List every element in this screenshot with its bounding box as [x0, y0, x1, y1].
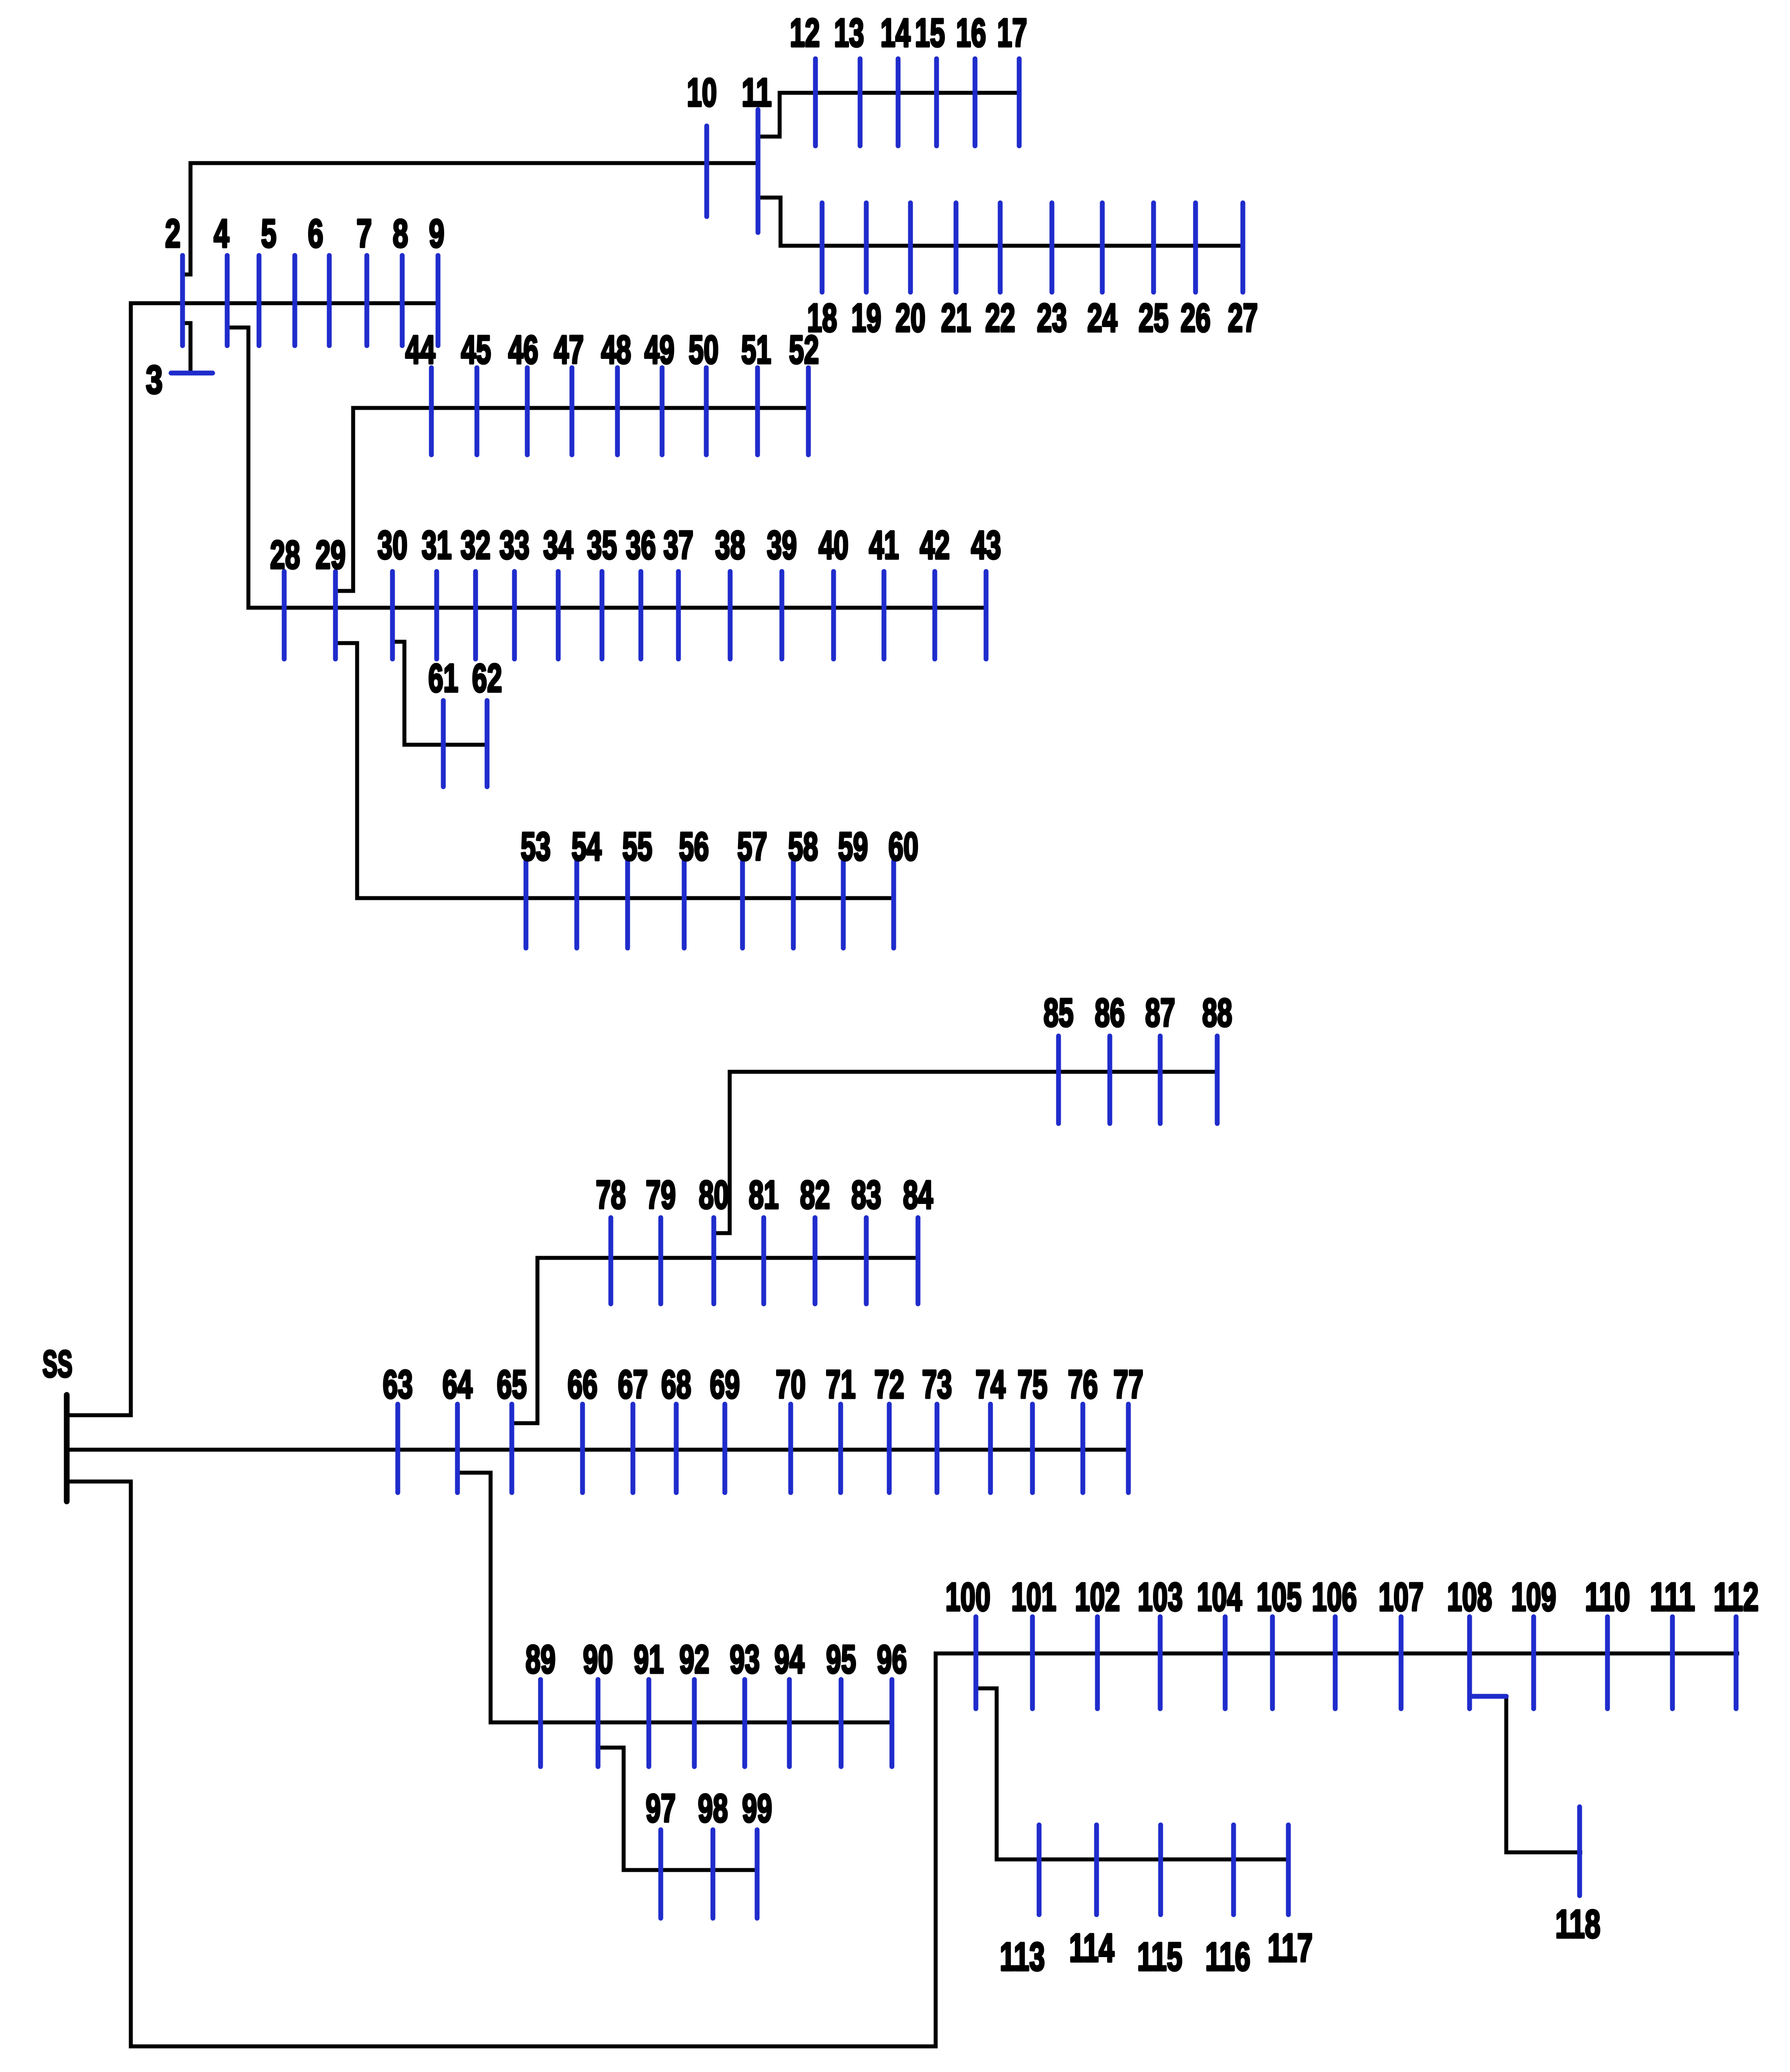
- wire bus 11 upper tap + feeder to buses 12-17: [758, 93, 1019, 137]
- bus 107: [1379, 1575, 1424, 1709]
- svg-text:71: 71: [826, 1363, 856, 1407]
- wire bus 108 drop + stub to bus 118: [1506, 1696, 1582, 1852]
- bus 110: [1585, 1575, 1630, 1709]
- bus 97: [646, 1786, 676, 1918]
- svg-text:42: 42: [920, 523, 950, 568]
- svg-text:93: 93: [730, 1638, 760, 1682]
- bus 33: [499, 523, 529, 659]
- svg-text:92: 92: [679, 1638, 709, 1682]
- bus 104: [1197, 1575, 1242, 1709]
- wire bus 29 riser + feeder to buses 44-52: [335, 408, 808, 591]
- svg-text:113: 113: [1000, 1935, 1045, 1979]
- bus 12: [790, 11, 820, 146]
- bus 91: [634, 1638, 664, 1767]
- svg-text:15: 15: [915, 11, 945, 55]
- bus 9: [402, 212, 445, 346]
- svg-text:22: 22: [985, 296, 1015, 340]
- svg-text:70: 70: [776, 1363, 806, 1407]
- svg-text:102: 102: [1075, 1575, 1120, 1619]
- svg-text:44: 44: [405, 328, 435, 372]
- svg-text:34: 34: [543, 523, 573, 568]
- svg-text:38: 38: [715, 523, 745, 568]
- wire bus 4 drop + feeder to buses 28-43: [227, 328, 987, 608]
- bus 109: [1511, 1575, 1556, 1709]
- svg-text:114: 114: [1069, 1926, 1114, 1970]
- svg-text:85: 85: [1044, 991, 1074, 1035]
- svg-text:115: 115: [1137, 1935, 1182, 1979]
- svg-text:97: 97: [646, 1786, 676, 1831]
- bus 114: [1069, 1825, 1114, 1970]
- svg-text:101: 101: [1011, 1575, 1056, 1619]
- bus 73: [922, 1363, 952, 1493]
- svg-text:94: 94: [774, 1638, 804, 1682]
- svg-text:58: 58: [788, 825, 818, 869]
- bus 56: [679, 825, 709, 948]
- wire SS lower branch + bottom run + right riser + feeder to buses 100-112: [69, 1482, 1739, 2046]
- svg-text:12: 12: [790, 11, 820, 55]
- bus 5: [259, 212, 277, 346]
- bus 38: [715, 523, 745, 659]
- bus 50: [689, 328, 719, 455]
- bus 3: [146, 358, 213, 402]
- bus 94: [774, 1638, 804, 1767]
- bus 80: [699, 1173, 729, 1304]
- bus 18: [807, 203, 837, 340]
- bus 19: [851, 203, 881, 340]
- svg-text:76: 76: [1068, 1363, 1098, 1407]
- bus 85: [1044, 991, 1074, 1124]
- svg-text:24: 24: [1087, 296, 1117, 340]
- svg-text:61: 61: [428, 656, 458, 701]
- svg-text:110: 110: [1585, 1575, 1630, 1619]
- bus 34: [543, 523, 573, 659]
- bus 86: [1095, 991, 1125, 1124]
- bus 78: [596, 1173, 626, 1304]
- svg-text:96: 96: [877, 1638, 907, 1682]
- bus 29: [316, 533, 346, 659]
- svg-text:74: 74: [975, 1363, 1005, 1407]
- svg-text:13: 13: [834, 11, 864, 55]
- svg-text:37: 37: [663, 523, 693, 568]
- svg-text:69: 69: [710, 1363, 740, 1407]
- svg-text:25: 25: [1139, 296, 1169, 340]
- bus 37: [663, 523, 693, 659]
- bus 11: [742, 71, 772, 232]
- svg-text:9: 9: [429, 212, 445, 256]
- wire bus 30 drop + feeder to buses 61-62: [392, 642, 487, 745]
- svg-text:111: 111: [1650, 1575, 1695, 1619]
- svg-text:91: 91: [634, 1638, 664, 1682]
- svg-text:62: 62: [472, 656, 502, 701]
- bus 66: [567, 1363, 598, 1493]
- svg-text:5: 5: [261, 212, 277, 256]
- svg-text:68: 68: [661, 1363, 691, 1407]
- svg-text:43: 43: [971, 523, 1001, 568]
- bus 22: [985, 203, 1015, 340]
- bus 79: [646, 1173, 676, 1304]
- svg-text:50: 50: [689, 328, 719, 372]
- svg-text:SS: SS: [42, 1343, 72, 1385]
- bus 39: [767, 523, 797, 659]
- svg-text:7: 7: [357, 212, 372, 256]
- bus 58: [788, 825, 818, 948]
- bus 68: [661, 1363, 691, 1493]
- svg-text:36: 36: [626, 523, 656, 568]
- bus 71: [826, 1363, 856, 1493]
- bus 103: [1138, 1575, 1183, 1709]
- svg-text:54: 54: [571, 825, 602, 869]
- svg-text:67: 67: [618, 1363, 648, 1407]
- bus 83: [851, 1173, 881, 1304]
- bus 113: [1000, 1825, 1045, 1979]
- svg-text:104: 104: [1197, 1575, 1242, 1619]
- bus 44: [405, 328, 435, 455]
- bus 89: [526, 1638, 556, 1767]
- svg-text:90: 90: [583, 1638, 613, 1682]
- svg-text:48: 48: [601, 328, 631, 372]
- svg-text:106: 106: [1312, 1575, 1357, 1619]
- svg-text:56: 56: [679, 825, 709, 869]
- svg-text:47: 47: [554, 328, 584, 372]
- bus 57: [737, 825, 767, 948]
- wire bus 64 drop + feeder to buses 89-96: [457, 1473, 892, 1722]
- svg-text:3: 3: [146, 358, 163, 402]
- svg-text:23: 23: [1037, 296, 1067, 340]
- bus 106: [1312, 1575, 1357, 1709]
- bus 99: [742, 1786, 772, 1918]
- svg-text:57: 57: [737, 825, 767, 869]
- svg-text:33: 33: [499, 523, 529, 568]
- svg-text:112: 112: [1714, 1575, 1759, 1619]
- svg-text:87: 87: [1145, 991, 1175, 1035]
- bus 41: [869, 523, 899, 659]
- wire bus 100 drop + feeder to buses 113-117: [976, 1688, 1288, 1859]
- bus 30: [377, 523, 408, 659]
- bus 108: [1447, 1575, 1492, 1709]
- svg-text:49: 49: [644, 328, 674, 372]
- bus 23: [1037, 203, 1067, 340]
- svg-text:4: 4: [214, 212, 229, 256]
- svg-text:46: 46: [508, 328, 538, 372]
- wire bus 80 riser + feeder to buses 85-88: [714, 1072, 1217, 1233]
- svg-text:17: 17: [997, 11, 1027, 55]
- bus 84: [903, 1173, 933, 1304]
- svg-text:116: 116: [1205, 1935, 1250, 1979]
- bus 93: [730, 1638, 760, 1767]
- svg-text:51: 51: [741, 328, 771, 372]
- bus 64: [442, 1363, 472, 1493]
- bus 21: [941, 203, 971, 340]
- svg-text:79: 79: [646, 1173, 676, 1217]
- svg-text:21: 21: [941, 296, 971, 340]
- bus 69: [710, 1363, 740, 1493]
- svg-text:59: 59: [838, 825, 868, 869]
- svg-text:108: 108: [1447, 1575, 1492, 1619]
- bus 10: [687, 71, 717, 217]
- svg-text:99: 99: [742, 1786, 772, 1831]
- wire bus 2 riser to top feeder and feeder to buses 10-11: [183, 163, 758, 274]
- bus 75: [1017, 1363, 1047, 1493]
- bus 88: [1202, 991, 1232, 1124]
- bus 74: [975, 1363, 1005, 1493]
- svg-text:64: 64: [442, 1363, 472, 1407]
- bus 15: [915, 11, 945, 146]
- wire SS main feeder to buses 63-77: [69, 1448, 1128, 1452]
- bus 13: [834, 11, 864, 146]
- bus 43: [971, 523, 1001, 659]
- svg-text:72: 72: [874, 1363, 904, 1407]
- svg-text:26: 26: [1181, 296, 1211, 340]
- svg-text:82: 82: [800, 1173, 830, 1217]
- svg-text:14: 14: [880, 11, 910, 55]
- svg-text:2: 2: [165, 212, 181, 256]
- svg-text:52: 52: [789, 328, 819, 372]
- svg-text:95: 95: [826, 1638, 856, 1682]
- bus 61: [428, 656, 458, 787]
- bus 55: [622, 825, 652, 948]
- bus 72: [874, 1363, 904, 1493]
- svg-text:118: 118: [1555, 1902, 1600, 1946]
- bus 63: [383, 1363, 413, 1493]
- bus 32: [461, 523, 491, 659]
- bus 77: [1113, 1363, 1143, 1493]
- bus 116: [1205, 1825, 1250, 1979]
- bus 117: [1268, 1825, 1313, 1970]
- bus 27: [1228, 203, 1258, 340]
- bus 20: [895, 203, 925, 340]
- bus 115: [1137, 1825, 1182, 1979]
- svg-text:81: 81: [749, 1173, 779, 1217]
- svg-text:45: 45: [461, 328, 491, 372]
- bus 96: [877, 1638, 907, 1767]
- svg-text:40: 40: [819, 523, 849, 568]
- bus 6: [295, 212, 324, 346]
- svg-text:30: 30: [377, 523, 408, 568]
- bus 14: [880, 11, 910, 146]
- svg-text:88: 88: [1202, 991, 1232, 1035]
- bus 16: [956, 11, 986, 146]
- svg-text:53: 53: [521, 825, 551, 869]
- bus 87: [1145, 991, 1175, 1124]
- svg-text:55: 55: [622, 825, 652, 869]
- bus 111: [1650, 1575, 1695, 1709]
- wire SS upper branch + left riser + feeder to buses 2-9: [69, 303, 438, 1415]
- svg-text:31: 31: [422, 523, 452, 568]
- bus 36: [626, 523, 656, 659]
- svg-text:27: 27: [1228, 296, 1258, 340]
- bus 76: [1068, 1363, 1098, 1493]
- bus 42: [920, 523, 950, 659]
- svg-text:105: 105: [1257, 1575, 1302, 1619]
- bus 67: [618, 1363, 648, 1493]
- bus 92: [679, 1638, 709, 1767]
- bus 90: [583, 1638, 613, 1767]
- bus 4: [214, 212, 229, 346]
- svg-text:75: 75: [1017, 1363, 1047, 1407]
- bus 46: [508, 328, 538, 455]
- bus 95: [826, 1638, 856, 1767]
- bus 102: [1075, 1575, 1120, 1709]
- svg-text:109: 109: [1511, 1575, 1556, 1619]
- bus 49: [644, 328, 674, 455]
- svg-text:35: 35: [587, 523, 617, 568]
- bus 53: [521, 825, 551, 948]
- svg-text:29: 29: [316, 533, 346, 577]
- svg-text:80: 80: [699, 1173, 729, 1217]
- svg-text:20: 20: [895, 296, 925, 340]
- bus 59: [838, 825, 868, 948]
- bus 112: [1714, 1575, 1759, 1709]
- svg-text:8: 8: [393, 212, 408, 256]
- bus 100: [945, 1575, 990, 1709]
- svg-text:6: 6: [308, 212, 324, 256]
- svg-text:78: 78: [596, 1173, 626, 1217]
- svg-text:41: 41: [869, 523, 899, 568]
- wire bus 11 lower tap + feeder to buses 18-27: [758, 198, 1243, 246]
- bus 47: [554, 328, 584, 455]
- wire bus 29 drop + feeder to buses 53-60: [335, 643, 894, 898]
- svg-text:65: 65: [497, 1363, 527, 1407]
- bus 25: [1139, 203, 1169, 340]
- bus 62: [472, 656, 502, 787]
- bus 118: [1555, 1807, 1600, 1946]
- svg-text:83: 83: [851, 1173, 881, 1217]
- svg-text:77: 77: [1113, 1363, 1143, 1407]
- bus 17: [997, 11, 1027, 146]
- svg-text:98: 98: [698, 1786, 728, 1831]
- bus 101: [1011, 1575, 1056, 1709]
- bus 7: [329, 212, 372, 346]
- svg-text:10: 10: [687, 71, 717, 115]
- svg-text:73: 73: [922, 1363, 952, 1407]
- wire bus 2 drop to bus 3: [181, 323, 190, 373]
- bus 28: [270, 533, 300, 659]
- bus 24: [1087, 203, 1117, 340]
- svg-text:86: 86: [1095, 991, 1125, 1035]
- bus 51: [741, 328, 771, 455]
- bus 82: [800, 1173, 830, 1304]
- bus 48: [601, 328, 631, 455]
- bus 26: [1181, 203, 1211, 340]
- svg-text:16: 16: [956, 11, 986, 55]
- svg-text:89: 89: [526, 1638, 556, 1682]
- bus 45: [461, 328, 491, 455]
- svg-text:107: 107: [1379, 1575, 1424, 1619]
- wire bus 108 blue jog: [1470, 1694, 1506, 1699]
- wire bus 65 riser + feeder to buses 78-84: [512, 1258, 918, 1423]
- svg-text:63: 63: [383, 1363, 413, 1407]
- svg-text:11: 11: [742, 71, 772, 115]
- svg-text:66: 66: [567, 1363, 598, 1407]
- bus 54: [571, 825, 602, 948]
- svg-text:60: 60: [888, 825, 918, 869]
- bus end bar (unlabeled, feeder 2-9): [436, 255, 441, 346]
- svg-text:32: 32: [461, 523, 491, 568]
- bus 70: [776, 1363, 806, 1493]
- svg-text:103: 103: [1138, 1575, 1183, 1619]
- bus 81: [749, 1173, 779, 1304]
- svg-text:117: 117: [1268, 1926, 1313, 1970]
- bus 8: [367, 212, 408, 346]
- svg-text:100: 100: [945, 1575, 990, 1619]
- bus 2: [165, 212, 183, 346]
- svg-text:84: 84: [903, 1173, 933, 1217]
- bus 35: [587, 523, 617, 659]
- bus 105: [1257, 1575, 1302, 1709]
- bus 31: [422, 523, 452, 659]
- svg-text:28: 28: [270, 533, 300, 577]
- bus 52: [789, 328, 819, 455]
- substation SS busbar: [42, 1343, 72, 1501]
- bus 65: [497, 1363, 527, 1493]
- wire bus 90 drop + feeder to buses 97-99: [598, 1748, 757, 1870]
- bus 98: [698, 1786, 728, 1918]
- svg-text:19: 19: [851, 296, 881, 340]
- svg-text:39: 39: [767, 523, 797, 568]
- bus 40: [819, 523, 849, 659]
- bus 60: [888, 825, 918, 948]
